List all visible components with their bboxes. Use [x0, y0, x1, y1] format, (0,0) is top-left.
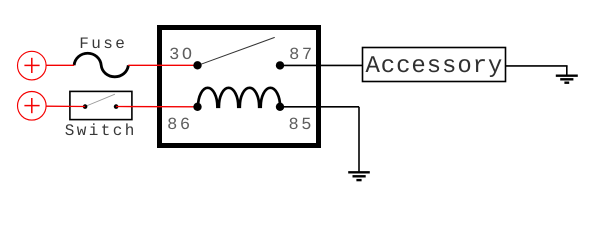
svg-text:Accessory: Accessory: [366, 53, 504, 80]
svg-text:Fuse: Fuse: [79, 35, 127, 53]
svg-text:87: 87: [289, 46, 315, 65]
svg-text:85: 85: [289, 116, 315, 135]
svg-text:Switch: Switch: [65, 122, 137, 140]
svg-text:86: 86: [167, 116, 193, 135]
svg-text:3O: 3O: [169, 46, 195, 65]
